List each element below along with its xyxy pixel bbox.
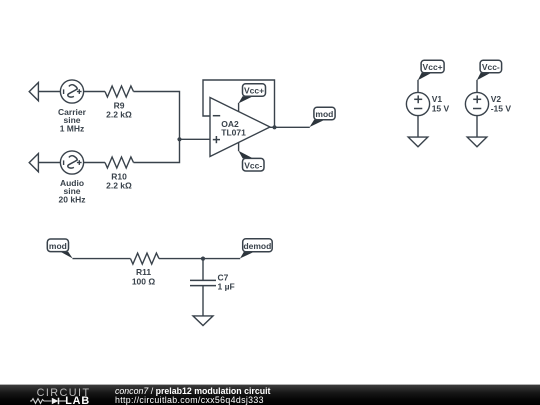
capacitor C7 plates <box>190 279 216 281</box>
minus terminal <box>63 89 65 94</box>
wire <box>38 91 60 93</box>
svg-text:mod: mod <box>315 109 333 119</box>
sine glyph <box>68 156 78 168</box>
ground (C7) <box>193 316 213 326</box>
node flag demod <box>240 239 272 259</box>
V2 minus sign <box>473 108 481 110</box>
node flag Vcc+ (V1) <box>418 60 444 80</box>
op-amp OA2 triangle <box>210 98 270 157</box>
op-amp V+ stub <box>238 103 240 112</box>
V2 plus sign <box>473 98 481 100</box>
output wire to mod <box>270 126 310 128</box>
wire <box>84 162 105 164</box>
V2 wire top <box>476 80 478 93</box>
svg-text:1 µF: 1 µF <box>218 282 235 292</box>
svg-text:Vcc-: Vcc- <box>482 62 500 72</box>
svg-text:V2: V2 <box>491 94 502 104</box>
plus terminal <box>77 162 82 164</box>
V1 wire top <box>417 80 419 93</box>
plus terminal <box>77 91 82 93</box>
sine glyph <box>68 85 78 97</box>
svg-text:2.2 kΩ: 2.2 kΩ <box>106 181 132 191</box>
node flag mod (bottom left) <box>47 239 72 258</box>
op-amp V- stub <box>238 142 240 151</box>
minus terminal <box>63 160 65 165</box>
op-amp plus sign <box>213 139 220 141</box>
svg-text:2.2 kΩ: 2.2 kΩ <box>106 110 132 120</box>
output node dot <box>272 125 276 129</box>
ground (V2) <box>467 137 487 147</box>
CircuitLab logo <box>0 384 110 405</box>
junction node dot <box>177 137 181 141</box>
wire to op-amp + input <box>180 138 211 140</box>
svg-text:15 V: 15 V <box>432 104 450 114</box>
wire <box>134 92 180 140</box>
wire <box>134 139 180 162</box>
node flag Vcc- (op-amp) <box>238 151 264 171</box>
wire to demod <box>159 258 240 260</box>
capacitor C7 wire top <box>202 259 204 281</box>
node flag mod (op-amp output) <box>310 107 336 127</box>
svg-text:Vcc+: Vcc+ <box>244 86 264 96</box>
svg-text:demod: demod <box>243 241 271 251</box>
resistor R11 <box>131 253 160 264</box>
junction dot (RC) <box>201 257 205 261</box>
resistor R10 <box>105 157 134 168</box>
wire <box>84 91 105 93</box>
footer bar <box>0 384 540 405</box>
source V1 circle <box>406 92 429 115</box>
svg-text:-15 V: -15 V <box>491 104 512 114</box>
svg-text:LAB: LAB <box>65 395 90 405</box>
op-amp minus sign <box>213 115 220 117</box>
node flag Vcc- (V2) <box>477 60 502 80</box>
svg-text:V1: V1 <box>432 94 443 104</box>
V1 wire bottom <box>417 116 419 137</box>
svg-text:100 Ω: 100 Ω <box>132 276 156 286</box>
svg-text:Vcc+: Vcc+ <box>423 62 443 72</box>
input port arrow (Audio) <box>29 154 38 172</box>
svg-text:Vcc-: Vcc- <box>244 160 262 170</box>
V1 plus sign <box>414 98 422 100</box>
input port arrow (Carrier) <box>29 83 38 101</box>
capacitor C7 wire bottom <box>202 286 204 316</box>
bottom mod wire <box>73 258 131 260</box>
V1 minus sign <box>414 108 422 110</box>
svg-text:mod: mod <box>49 241 67 251</box>
source V Audio circle <box>60 151 83 174</box>
V2 wire bottom <box>476 116 478 137</box>
feedback wire <box>203 80 275 127</box>
svg-text:R11: R11 <box>136 267 151 277</box>
ground (V1) <box>408 137 428 147</box>
svg-text:1 MHz: 1 MHz <box>60 124 85 134</box>
svg-text:20 kHz: 20 kHz <box>59 195 86 205</box>
source V Carrier circle <box>60 80 83 103</box>
wire <box>38 162 60 164</box>
svg-text:TL071: TL071 <box>221 127 246 137</box>
resistor R9 <box>105 86 134 97</box>
node flag Vcc+ (op-amp) <box>238 84 265 104</box>
source V2 circle <box>465 92 488 115</box>
